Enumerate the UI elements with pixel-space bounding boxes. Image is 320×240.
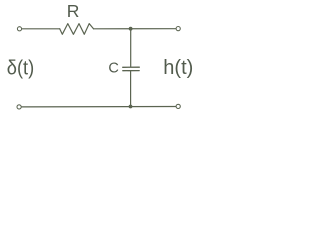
svg-text:δ(t): δ(t)	[7, 58, 34, 80]
ground terminal bottom-left	[17, 105, 21, 109]
ground terminal bottom-right	[176, 104, 180, 108]
bottom return wire	[22, 106, 176, 108]
svg-text:C: C	[108, 60, 118, 76]
node junction top	[129, 27, 133, 31]
wire capacitor top lead	[130, 29, 132, 67]
svg-text:h(t): h(t)	[163, 57, 193, 79]
resistor R	[60, 24, 94, 35]
node junction bottom	[129, 105, 133, 109]
capacitor C top plate	[123, 66, 140, 68]
wire capacitor bottom lead	[130, 71, 132, 106]
input terminal top-left	[17, 27, 21, 31]
wire resistor to output terminal	[94, 28, 176, 30]
output terminal top-right	[176, 27, 180, 31]
wire top-left to resistor	[22, 28, 60, 30]
capacitor C bottom plate	[123, 70, 139, 72]
svg-text:R: R	[67, 1, 80, 21]
